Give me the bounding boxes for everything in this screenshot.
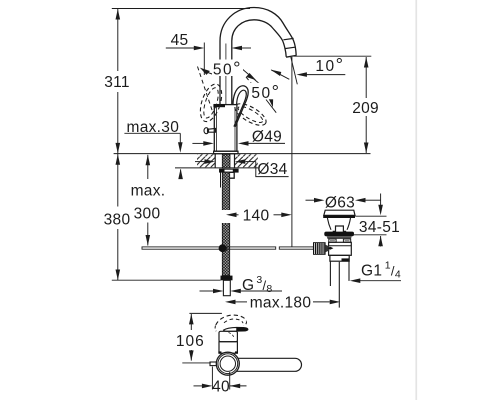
svg-text:10°: 10° bbox=[315, 54, 344, 75]
svg-text:max.180: max.180 bbox=[250, 295, 312, 312]
arrow 209 down bbox=[364, 143, 369, 154]
dim Ø49 underline bbox=[246, 142, 285, 144]
gooseneck inner arc bbox=[232, 20, 286, 57]
dim max300 line lower bbox=[147, 223, 149, 246]
arrow 106 down bbox=[189, 350, 194, 361]
body inner wall left bbox=[215, 107, 217, 151]
left ghost axis dashed bbox=[198, 67, 214, 114]
dim Ø63 left leader bbox=[306, 199, 315, 201]
svg-text:Ø34: Ø34 bbox=[257, 161, 287, 178]
dim max.30 bend down bbox=[179, 133, 181, 143]
mounting nut black right bbox=[233, 169, 239, 173]
dim 311 line lower bbox=[117, 92, 119, 153]
knurled knob bbox=[313, 243, 325, 255]
dim 10 line bbox=[306, 74, 345, 76]
drain flange black bar bbox=[323, 215, 355, 218]
right fitting below nut bbox=[230, 172, 234, 178]
leader 50b line bbox=[266, 100, 276, 113]
dim 311 top extension line bbox=[112, 8, 250, 10]
arrow max300 up bbox=[146, 155, 151, 166]
arrow 34-51 up bbox=[378, 236, 383, 247]
aerator tip bbox=[286, 55, 296, 57]
left ghost ellipse outer bbox=[196, 81, 226, 124]
arrow 10deg left-point bbox=[296, 72, 307, 77]
arrow 140 right-point bbox=[281, 213, 292, 218]
arrow 40 left-point bbox=[230, 384, 241, 389]
right ghost axis dashed bbox=[246, 77, 262, 96]
dim max.30 lower stem bbox=[180, 170, 182, 180]
dim 209 line lower bbox=[365, 116, 367, 153]
dim 380 line upper bbox=[117, 154, 119, 207]
body inner wall right bbox=[234, 107, 236, 151]
arrow 50a right bbox=[246, 73, 256, 80]
slot right bbox=[343, 239, 350, 242]
arrow max300 down bbox=[146, 235, 151, 246]
arrow G1 left-point bbox=[350, 278, 361, 283]
plan body lower bbox=[219, 342, 237, 354]
countertop top line bbox=[114, 153, 371, 155]
arrow 311 down bbox=[116, 143, 121, 154]
svg-text:45: 45 bbox=[171, 32, 189, 49]
svg-text:34-51: 34-51 bbox=[359, 219, 400, 236]
spout outlet extension line bbox=[294, 55, 372, 57]
dim 106 top ext line bbox=[189, 312, 222, 314]
mounting nut black left bbox=[219, 169, 224, 173]
aerator band upper bbox=[283, 38, 293, 39]
svg-text:Ø63: Ø63 bbox=[325, 195, 355, 212]
aerator axis slanted line bbox=[291, 57, 298, 84]
plan dashed hook outer bbox=[216, 315, 247, 325]
plan handle mid circle bbox=[218, 354, 238, 374]
svg-text:50°: 50° bbox=[213, 58, 242, 79]
dim G1 1/4 leader bbox=[360, 280, 401, 282]
svg-text:max.: max. bbox=[131, 183, 166, 200]
drain neck bbox=[327, 218, 350, 230]
plan dashed hook left tip bbox=[215, 326, 216, 332]
dim 311 line upper bbox=[117, 9, 119, 71]
dim 106 line lower bbox=[190, 350, 192, 361]
dim Ø34 bend bbox=[256, 162, 289, 177]
plan dashed hook inner bbox=[224, 319, 243, 323]
dim 45 leader left bbox=[166, 47, 194, 49]
coupling corner mark bbox=[342, 258, 350, 261]
faucet body bbox=[214, 105, 237, 152]
dim Ø34 left leader bbox=[195, 161, 205, 163]
dim 380 line lower bbox=[117, 229, 119, 280]
rod junction dot bbox=[219, 244, 227, 252]
left ghost ellipse inner bbox=[201, 86, 221, 120]
knob cone bbox=[325, 245, 329, 253]
under trapezoid bbox=[327, 236, 352, 239]
arrow G3/8 right-point bbox=[213, 289, 224, 294]
dim 40 ext left bbox=[211, 367, 213, 390]
vertical reference from spout bbox=[291, 57, 293, 247]
svg-text:40: 40 bbox=[212, 379, 230, 396]
counter hatch left bbox=[197, 154, 215, 167]
plan handle inner circle bbox=[220, 356, 235, 371]
arrow 380 up bbox=[116, 154, 121, 165]
hose end nut bbox=[221, 276, 233, 281]
svg-text:106: 106 bbox=[176, 333, 205, 350]
hose gap at 140 dim bbox=[221, 210, 231, 223]
riser mid line bbox=[225, 44, 227, 105]
dim 106 line upper bbox=[190, 314, 192, 330]
arrow 106 up bbox=[189, 314, 194, 325]
arrow 45 right bbox=[194, 46, 205, 51]
dim G3/8 left leader bbox=[200, 290, 214, 292]
leader 50a left line bbox=[207, 72, 214, 75]
line A flange level bbox=[355, 215, 386, 217]
svg-text:380: 380 bbox=[104, 212, 131, 229]
arrow Ø49 right-point bbox=[203, 141, 214, 146]
dim 140 line right bbox=[274, 214, 282, 216]
arrow 45 left-point bbox=[232, 46, 243, 51]
supply hose braided bbox=[222, 172, 229, 275]
right ghost ellipse inner bbox=[236, 104, 265, 126]
arrow 140 left-point bbox=[226, 213, 237, 218]
plan handle outer circle bbox=[216, 352, 239, 375]
dim max300 line upper bbox=[147, 155, 149, 179]
drain body seam bbox=[329, 245, 352, 247]
plan lever arm bbox=[233, 358, 302, 371]
body top black cap bbox=[213, 104, 225, 107]
dim 380 bottom line bbox=[112, 279, 221, 281]
dim 45 right leader bbox=[242, 47, 252, 49]
arrow max180 right-point bbox=[330, 300, 341, 305]
aerator band bbox=[285, 47, 295, 48]
shank hose fill bbox=[222, 154, 230, 168]
leader 50a right line bbox=[241, 68, 262, 86]
mounting nut bbox=[220, 169, 239, 172]
arrow 50a left bbox=[200, 68, 210, 75]
dim max180 line right bbox=[313, 301, 330, 303]
arrow 50b down bbox=[268, 97, 273, 108]
arrow 209 up bbox=[364, 57, 369, 68]
dim 45 extension line bbox=[203, 43, 205, 76]
mid black bar bbox=[324, 232, 354, 237]
dim max180 line left bbox=[236, 301, 248, 303]
coupling nut bbox=[330, 255, 349, 261]
side lever knob bbox=[204, 128, 209, 134]
counter hatch right bbox=[235, 154, 258, 167]
arrow max30 up bbox=[178, 169, 183, 180]
dim Ø63 right leader bbox=[366, 199, 381, 201]
tailpipe left wall bbox=[329, 261, 331, 286]
dim Ø34 right leader bbox=[246, 161, 256, 163]
arrow max30 down bbox=[178, 142, 183, 153]
label 50 b halo bbox=[251, 83, 282, 100]
plan lever blade bbox=[224, 327, 248, 331]
dim max.30 underline bbox=[124, 132, 180, 134]
plan lever blade dark half bbox=[236, 327, 248, 331]
pop-up rod bbox=[142, 247, 276, 249]
side lever bbox=[208, 128, 216, 132]
dim Ø49 left leader bbox=[192, 142, 203, 144]
tailpipe center line bbox=[338, 262, 340, 308]
50° leader lines bbox=[207, 68, 277, 113]
svg-text:311: 311 bbox=[104, 74, 130, 91]
overflow box bbox=[333, 226, 347, 231]
svg-text:Ø49: Ø49 bbox=[252, 128, 282, 145]
arrow Ø34 left-point bbox=[235, 159, 246, 164]
dim 140 line left bbox=[236, 214, 239, 216]
dim 40 line left bbox=[194, 385, 203, 387]
svg-text:209: 209 bbox=[352, 100, 379, 117]
arrow 380 down bbox=[116, 270, 121, 281]
arrow Ø63 left-point bbox=[355, 198, 366, 203]
page border line bbox=[415, 0, 417, 400]
gooseneck outer arc bbox=[220, 8, 296, 56]
svg-text:140: 140 bbox=[243, 208, 270, 225]
tailpipe right wall bbox=[348, 261, 350, 281]
dim 209 line upper bbox=[365, 57, 367, 98]
svg-text:max.30: max.30 bbox=[127, 119, 180, 136]
svg-text:300: 300 bbox=[134, 206, 161, 223]
arrow Ø63 right-point bbox=[314, 198, 325, 203]
plan tab bbox=[210, 362, 217, 366]
dim 40 line right bbox=[230, 385, 247, 387]
pivot dot bbox=[327, 247, 333, 250]
hose connector tube bbox=[223, 280, 230, 295]
svg-text:50°: 50° bbox=[251, 81, 280, 102]
dim 34-51 upper stem bbox=[380, 194, 382, 206]
shank below counter bbox=[214, 154, 216, 168]
plan body corner marks bbox=[218, 351, 221, 353]
arrow Ø49 left-point bbox=[238, 141, 249, 146]
arrow G3/8 left-point bbox=[230, 289, 241, 294]
countertop bottom line bbox=[175, 167, 258, 169]
plan body upper bbox=[219, 331, 237, 341]
dim 40 ext right bbox=[229, 372, 231, 390]
arrow Ø34 right-point bbox=[205, 159, 216, 164]
left shank line below nut bbox=[220, 172, 222, 187]
handle loop inner bbox=[234, 90, 246, 126]
label 50 a halo bbox=[212, 60, 243, 77]
drain flange bbox=[324, 210, 355, 215]
dim G3/8 underline bbox=[241, 290, 283, 292]
drain body bbox=[329, 242, 352, 255]
swivel arc arrow curve bbox=[271, 70, 289, 79]
right ghost ellipse outer bbox=[232, 100, 270, 130]
arrow 34-51 down bbox=[378, 205, 383, 216]
handle loop outer bbox=[233, 86, 248, 127]
base plate bbox=[214, 151, 238, 154]
dim 34-51 lower stem bbox=[380, 236, 382, 247]
arrow 311 up bbox=[116, 9, 121, 20]
arrow swivel arc bbox=[271, 70, 282, 76]
line B mid level bbox=[353, 234, 387, 236]
dim G1 1/4 ext line bbox=[348, 258, 350, 281]
plan tab leader line bbox=[182, 362, 210, 364]
plan dashed hook right curl bbox=[244, 321, 247, 325]
arrow 40 right-point bbox=[202, 384, 213, 389]
slot left bbox=[329, 239, 336, 242]
arrow max180 left-point bbox=[225, 300, 236, 305]
plan body inner dashes bbox=[229, 333, 235, 339]
spout riser pipe bbox=[220, 41, 232, 105]
